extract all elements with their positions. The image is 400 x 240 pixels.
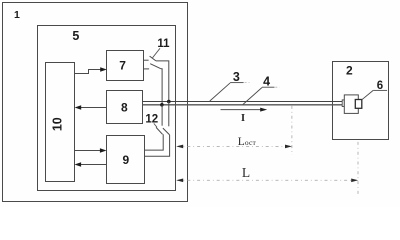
svg-text:L: L [242,165,250,180]
current direction arrow I [221,108,268,112]
block 5 inner unit [38,26,176,191]
svg-text:3: 3 [233,70,240,84]
datum dashed line at fault point [291,106,293,155]
svg-text:Lост: Lост [238,136,257,148]
matching unit body [344,95,358,114]
line 3 upper conductor [143,101,343,103]
block 8 [107,91,143,124]
wire 10 to 7 with arrow [75,67,107,73]
svg-text:10: 10 [50,117,64,131]
rail line 4 down to switch 12 [161,105,163,126]
label 1 [14,9,20,21]
dimension line Lост [176,145,292,149]
switch 11 lower blade [150,64,161,69]
wire switch 11 upper to line 3 rail [156,61,169,102]
label 12 [145,113,158,125]
label L [242,165,250,180]
block 9 [107,136,145,184]
wire switch 12 right to block 9 [145,135,170,156]
junction dot on line 4 [160,103,164,107]
switch 11 upper blade [150,56,156,61]
svg-text:4: 4 [263,75,270,89]
switch 11 lower pole stub [144,68,150,70]
block 7 [107,51,144,81]
line termination tab at block 2 [342,100,344,107]
label 6 with underline [373,80,387,92]
svg-text:2: 2 [346,64,353,78]
leader for label 4 [243,88,262,105]
label I [241,112,245,124]
label 2 [346,64,353,78]
block 10 [46,63,75,182]
svg-text:7: 7 [119,59,126,73]
svg-text:1: 1 [14,9,20,21]
wire 8 to 10 with arrow [75,105,107,109]
label 4 with underline [262,75,280,89]
leader for label 6 [362,90,373,99]
wire 10 to 9 with arrow [75,148,107,152]
switch 11 upper pole stub [144,59,149,61]
block 1 outer enclosure [3,3,188,202]
block 2 remote unit [333,62,389,140]
svg-text:5: 5 [72,29,79,43]
datum dashed line at line end [357,142,359,196]
line 4 lower conductor [143,104,343,106]
svg-text:9: 9 [123,153,130,167]
switch 12 left blade [156,127,162,134]
wire switch 12 left to block 9 [145,134,164,150]
svg-text:8: 8 [121,101,128,115]
svg-text:I: I [241,112,245,124]
element 6 sensor square [355,100,362,109]
label 11 [157,38,170,50]
rail line 3 down to switch 12 [168,102,170,127]
label Lост [238,136,257,148]
junction dot on line 3 [167,100,171,104]
switch 12 right blade [163,128,170,135]
leader for label 12 [154,123,157,127]
leader for label 3 [210,83,230,101]
wire switch 11 lower to line 4 rail [161,69,162,105]
label 3 with underline [230,70,249,84]
dimension line L [176,179,358,183]
svg-text:12: 12 [145,113,158,125]
wire 9 to 10 with arrow [75,162,107,166]
label 5 [72,29,79,43]
svg-text:11: 11 [157,38,170,50]
leader for label 11 [153,48,161,58]
